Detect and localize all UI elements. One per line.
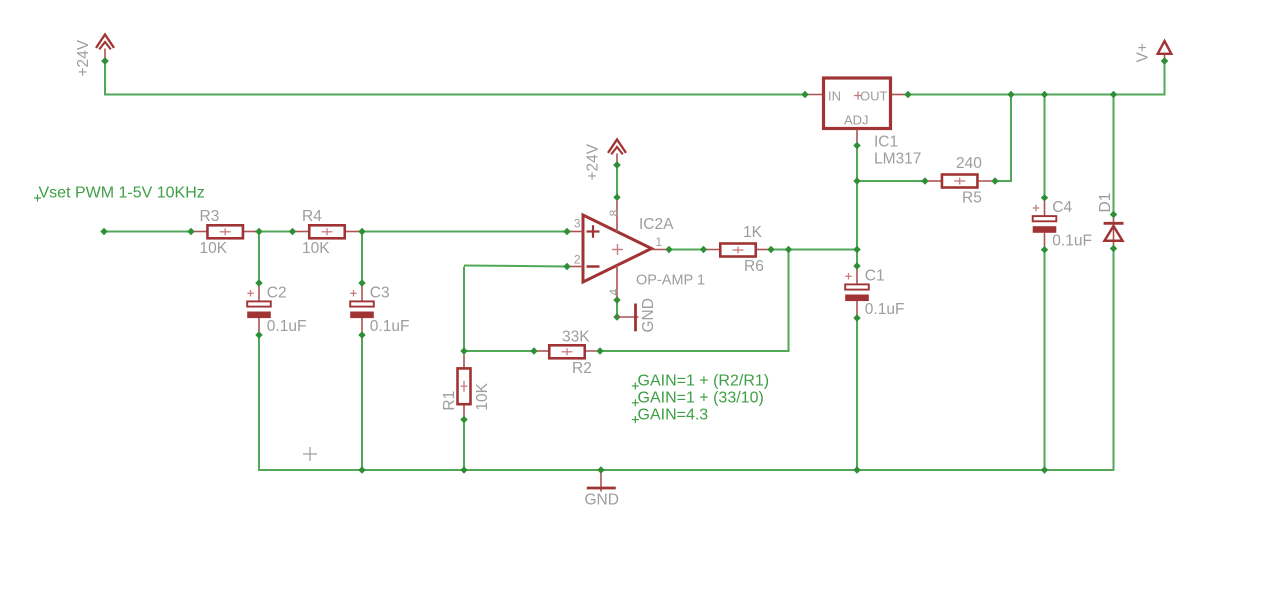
svg-text:1K: 1K <box>743 224 763 241</box>
svg-text:IN: IN <box>828 89 841 104</box>
svg-text:0.1uF: 0.1uF <box>370 318 410 335</box>
svg-text:R5: R5 <box>962 190 982 207</box>
svg-text:GAIN=1 + (R2/R1): GAIN=1 + (R2/R1) <box>638 373 770 390</box>
svg-text:0.1uF: 0.1uF <box>1052 233 1092 250</box>
svg-text:+24V: +24V <box>75 39 92 76</box>
svg-text:GAIN=1 + (33/10): GAIN=1 + (33/10) <box>638 390 764 407</box>
svg-text:C1: C1 <box>865 267 885 284</box>
svg-text:R1: R1 <box>441 391 458 411</box>
svg-text:GND: GND <box>640 298 657 332</box>
svg-text:C2: C2 <box>267 284 287 301</box>
svg-text:OP-AMP 1: OP-AMP 1 <box>636 273 705 289</box>
svg-text:ADJ: ADJ <box>844 113 869 128</box>
svg-text:C4: C4 <box>1052 199 1072 216</box>
svg-text:2: 2 <box>574 253 581 267</box>
svg-text:IC2A: IC2A <box>639 216 674 233</box>
svg-text:GAIN=4.3: GAIN=4.3 <box>638 406 709 423</box>
svg-text:4: 4 <box>607 289 621 296</box>
svg-text:OUT: OUT <box>860 89 888 104</box>
svg-text:D1: D1 <box>1097 193 1114 213</box>
svg-text:10K: 10K <box>474 382 491 410</box>
svg-text:3: 3 <box>574 217 581 231</box>
svg-text:Vset PWM 1-5V 10KHz: Vset PWM 1-5V 10KHz <box>39 184 205 201</box>
svg-text:R2: R2 <box>572 360 592 377</box>
svg-text:GND: GND <box>585 492 619 509</box>
svg-text:1: 1 <box>656 235 663 249</box>
svg-text:R3: R3 <box>200 208 220 225</box>
svg-text:240: 240 <box>956 155 982 172</box>
svg-text:10K: 10K <box>200 240 228 257</box>
svg-text:+24V: +24V <box>585 143 602 180</box>
svg-text:C3: C3 <box>370 284 390 301</box>
svg-text:LM317: LM317 <box>874 151 921 168</box>
svg-text:R6: R6 <box>744 258 764 275</box>
svg-text:8: 8 <box>607 210 621 217</box>
svg-text:V+: V+ <box>1134 43 1151 62</box>
svg-text:0.1uF: 0.1uF <box>865 301 905 318</box>
svg-text:10K: 10K <box>302 240 330 257</box>
svg-text:IC1: IC1 <box>874 134 898 151</box>
svg-text:R4: R4 <box>302 208 322 225</box>
svg-text:0.1uF: 0.1uF <box>267 318 307 335</box>
svg-text:33K: 33K <box>562 329 590 346</box>
